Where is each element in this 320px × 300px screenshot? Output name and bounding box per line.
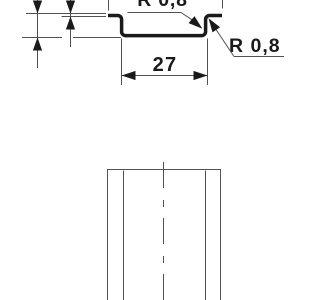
- arrow 1 bottom: [66, 17, 75, 30]
- label R 0,8 right arrowhead: [209, 18, 221, 32]
- extension line rail bottom surface right part: [73, 37, 121, 39]
- extension line 27 left: [121, 39, 123, 86]
- arrow 27 left: [122, 71, 136, 80]
- arrow 27 right: [194, 71, 208, 80]
- plan view outline: [108, 170, 221, 300]
- dimension line 1 thickness: [70, 0, 72, 47]
- plan view center line: [163, 162, 165, 300]
- svg-text:27: 27: [153, 54, 178, 76]
- plan view bend line right: [205, 171, 207, 300]
- extension line rail bottom surface left part: [22, 37, 62, 39]
- arrow 1 top: [66, 1, 75, 14]
- arrow 7.5 bottom: [33, 38, 42, 51]
- extension line right lip end: [222, 0, 224, 9]
- dimension line 7.5 height: [37, 0, 39, 68]
- extension line 27 right: [207, 39, 209, 86]
- arrow 7.5 top: [33, 1, 42, 14]
- svg-text:R 0,8: R 0,8: [137, 0, 188, 11]
- rail profile cross-section: [108, 16, 222, 36]
- label R 0,8 top leader: [181, 13, 192, 20]
- extension line rail top surface: [26, 13, 106, 15]
- label R 0,8 right underline: [234, 56, 284, 58]
- plan view bend line left: [123, 171, 125, 300]
- dimension line 27: [122, 75, 208, 77]
- label R 0,8 top arrowhead: [189, 16, 203, 29]
- extension line lip underside: [62, 16, 107, 18]
- extension line left lip end: [108, 0, 110, 11]
- svg-text:R 0,8: R 0,8: [229, 35, 281, 57]
- label R 0,8 top underline: [128, 12, 182, 14]
- label R 0,8 right leader: [216, 30, 234, 57]
